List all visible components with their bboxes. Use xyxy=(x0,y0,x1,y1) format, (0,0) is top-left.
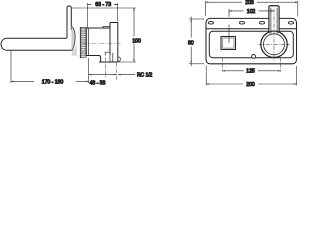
svg-text:RC 1/2: RC 1/2 xyxy=(137,72,153,78)
slot hole 2 xyxy=(239,22,244,25)
svg-text:63 - 73: 63 - 73 xyxy=(95,2,111,8)
wall-side shank xyxy=(110,23,118,63)
slot hole 3 xyxy=(259,22,264,25)
valve window square outer xyxy=(221,37,236,50)
plate step line xyxy=(206,28,297,30)
bottom screw centerline left xyxy=(219,59,226,72)
keyhole: handle circle (white cover) xyxy=(261,31,287,57)
square center extension line xyxy=(228,12,230,43)
dimension 80 (plate height) xyxy=(189,17,204,67)
dimension 125 (screw pitch) xyxy=(222,70,280,72)
dimension 100 (left view height) xyxy=(72,8,136,62)
svg-text:102: 102 xyxy=(247,9,256,15)
threaded strip (hatch) xyxy=(80,28,86,58)
svg-text:200: 200 xyxy=(246,82,255,88)
centerline vertical (wall pipe axis) xyxy=(116,63,118,81)
valve window square inner xyxy=(223,38,234,48)
svg-text:203: 203 xyxy=(245,0,254,6)
circle horizontal centerline xyxy=(259,43,291,45)
centerline horizontal (body axis) xyxy=(83,42,122,44)
valve body xyxy=(86,23,110,57)
inner recessed panel xyxy=(209,31,293,57)
centerline vertical (inlet axis) xyxy=(104,58,106,78)
dimension 63-73 (top) xyxy=(88,3,118,28)
svg-text:100: 100 xyxy=(132,38,141,44)
svg-text:125: 125 xyxy=(246,69,255,75)
dimension 102 (center to handle) xyxy=(229,9,274,13)
spout tube xyxy=(1,38,74,50)
handle base cone (shaded) xyxy=(71,27,77,56)
dimension 200 (bottom) xyxy=(206,66,296,86)
RC 1/2 leader and label xyxy=(118,74,135,76)
mounting plate outline xyxy=(206,18,297,63)
inlet elbow and flange xyxy=(99,52,120,62)
dimension 203 (plate width) xyxy=(206,1,298,17)
slot hole 4 xyxy=(288,22,293,25)
dimension 170-180 (spout reach) xyxy=(11,51,89,83)
escutcheon flange line xyxy=(79,27,81,58)
svg-text:48 - 58: 48 - 58 xyxy=(90,80,106,86)
keyhole handle stem xyxy=(269,6,279,33)
small drain hole xyxy=(252,55,256,59)
svg-text:80: 80 xyxy=(188,40,194,46)
svg-text:170 - 180: 170 - 180 xyxy=(42,79,64,85)
slot hole 1 xyxy=(208,22,213,25)
bottom screw centerline right xyxy=(277,59,284,72)
handle lever (side view) xyxy=(67,6,71,38)
dimension 48-58 (wall depth) xyxy=(89,74,117,76)
handle vertical centerline xyxy=(273,9,275,62)
